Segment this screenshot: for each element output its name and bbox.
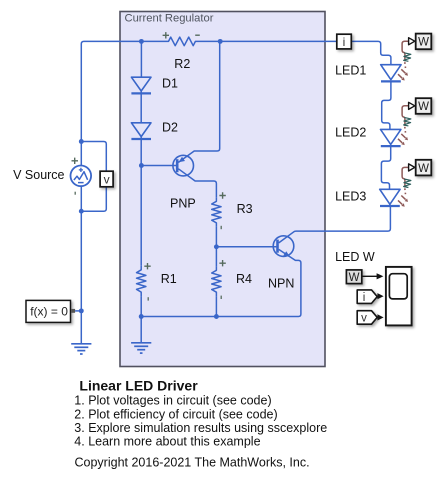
LED2 W display block [416, 98, 432, 114]
NPN emitter wire (down to bottom rail) [141, 249, 301, 316]
LED2 coil (teal spring) [404, 117, 411, 126]
solver configuration block f(x)=0 [26, 300, 71, 322]
node A [139, 39, 144, 44]
node D (R3/R4/base) [214, 244, 219, 249]
diode D1 cathode bar [131, 92, 151, 94]
wire: node G to left ground [80, 311, 82, 344]
svg-text:W: W [418, 101, 429, 113]
node B (PNP emitter junction) [218, 39, 223, 44]
svg-text:NPN: NPN [268, 277, 294, 291]
svg-text:Current Regulator: Current Regulator [125, 13, 214, 25]
svg-text:W: W [418, 37, 429, 49]
wire: node E to V source [80, 142, 82, 166]
svg-text:R3: R3 [237, 202, 253, 216]
node C (base junction) [139, 163, 144, 168]
R1 polarity + mark [144, 263, 150, 269]
wire: LED3 cathode stub [389, 204, 391, 207]
wire: solver port to node G [75, 310, 81, 312]
svg-text:1. Plot voltages in circuit (s: 1. Plot voltages in circuit (see code) [74, 394, 271, 408]
svg-text:Linear LED Driver: Linear LED Driver [79, 377, 198, 393]
wire: V source to node F [80, 186, 82, 211]
LED1 power signal wire (maroon) [402, 41, 408, 61]
wire: i sensor to LED1 entry [352, 41, 391, 64]
LED3 coil (teal spring) [404, 179, 411, 188]
R1 polarity - mark [147, 297, 149, 300]
LED3 power signal wire (maroon) [402, 167, 408, 187]
scope block LED W [386, 267, 412, 326]
R2 polarity + mark [163, 32, 169, 38]
W goto box [346, 270, 361, 284]
node G (solver) [79, 308, 84, 313]
wire: R2 to node B and out to i sensor [196, 40, 336, 42]
wire: node E right branch to voltage sensor [81, 142, 106, 172]
node E (source top) [79, 139, 84, 144]
PNP emitter arrow [179, 157, 185, 163]
node F (source bottom) [79, 209, 84, 214]
svg-text:LED1: LED1 [335, 64, 366, 78]
svg-text:v: v [361, 313, 367, 325]
LED2 cathode bar [381, 145, 401, 147]
LED3 W input arrowhead (open triangle) [409, 164, 415, 171]
NPN collector wire (to LED3 cathode) [279, 207, 391, 243]
LED2 triangle [381, 129, 401, 144]
svg-text:4. Learn more about this examp: 4. Learn more about this example [74, 435, 260, 449]
voltage sensor v block [100, 171, 113, 187]
LED1 light arrow 2 [398, 74, 405, 80]
V source internal + [79, 168, 83, 172]
wire: D2 to node C and down to R1 [140, 137, 142, 266]
current sensor i block [337, 34, 352, 49]
LED3 cathode bar [380, 205, 400, 207]
LED1 light arrow 1 [401, 69, 408, 75]
LED2 light arrow 2 [398, 139, 405, 145]
svg-text:2. Plot efficiency of circuit: 2. Plot efficiency of circuit (see code) [74, 407, 277, 421]
svg-text:PNP: PNP [170, 196, 196, 210]
wire: LED1 to LED2 [382, 81, 391, 129]
wire: R1 to ground node [140, 296, 142, 316]
LED2 dashed signal segment [404, 127, 407, 133]
svg-text:3. Explore simulation results: 3. Explore simulation results using ssce… [74, 421, 327, 435]
svg-text:D1: D1 [162, 77, 178, 91]
wire: D1 to D2 [140, 91, 142, 123]
LED3 W display block [416, 160, 432, 176]
solver block port [71, 309, 75, 313]
wire: node A to R2 [141, 40, 166, 42]
resistor R1 [137, 266, 146, 296]
svg-text:v: v [104, 173, 110, 187]
node R1-ground [139, 314, 144, 319]
LED1 W display block [416, 34, 432, 50]
V Source (AC source circle) [71, 166, 92, 187]
R3 polarity - mark [220, 226, 222, 229]
LED1 W input arrowhead (open triangle) [409, 38, 415, 45]
svg-text:W: W [349, 272, 360, 284]
ground (left) [71, 344, 91, 354]
transistor Q1 PNP circle [173, 155, 194, 176]
resistor R4 [212, 266, 221, 296]
LED2 W input arrowhead (open triangle) [409, 102, 415, 109]
wire: node D down to R4 [215, 247, 217, 266]
wire: R4 to bottom rail [215, 296, 217, 316]
svg-text:Copyright 2016-2021 The MathWo: Copyright 2016-2021 The MathWorks, Inc. [75, 456, 310, 470]
svg-text:LED3: LED3 [335, 190, 366, 204]
LED3 triangle [380, 189, 400, 204]
svg-text:f(x) = 0: f(x) = 0 [30, 304, 68, 318]
NPN emitter arrow [283, 251, 290, 257]
V source internal - [78, 182, 84, 184]
wire: R3 to node D [215, 227, 217, 247]
wire: node C to PNP base [141, 165, 176, 167]
svg-text:i: i [363, 292, 366, 304]
wire: bottom rail node to subsystem ground [140, 317, 142, 343]
svg-text:W: W [418, 163, 429, 175]
arrowhead v to scope [377, 314, 383, 320]
PNP collector wire (down to R3) [178, 169, 216, 198]
svg-text:i: i [343, 35, 346, 49]
R4 polarity + mark [219, 260, 225, 266]
wire: V source top to node A (top left corner) [81, 41, 141, 141]
svg-text:LED W: LED W [335, 250, 375, 264]
Current Regulator subsystem area [120, 12, 325, 367]
NPN base bar [276, 240, 279, 253]
arrowhead i to scope [377, 293, 383, 299]
svg-text:R4: R4 [236, 272, 252, 286]
wire: voltage sensor to node F [81, 187, 106, 211]
wire: node D to NPN base [216, 246, 276, 248]
wire: node F down to solver node G [80, 211, 82, 311]
LED1 cathode bar [381, 80, 401, 82]
svg-text:R1: R1 [161, 272, 177, 286]
R4 polarity - mark [220, 296, 222, 299]
PNP emitter wire (to top rail) [178, 41, 219, 162]
from tag i [357, 290, 377, 304]
LED1 triangle [381, 65, 401, 80]
transistor Q2 NPN circle [273, 236, 294, 257]
LED3 light arrow 2 [398, 200, 405, 206]
resistor R3 [212, 197, 221, 227]
svg-text:V Source: V Source [13, 168, 64, 182]
from tag v [357, 311, 377, 325]
R2 polarity - mark [195, 34, 200, 36]
diode D1 triangle [131, 77, 151, 91]
ground (subsystem) [131, 343, 151, 353]
node R4-bottom rail [214, 314, 219, 319]
LED1 coil (teal spring) [404, 53, 411, 62]
PNP base bar [176, 159, 179, 172]
LED2 power signal wire (maroon) [402, 106, 408, 126]
diode D2 cathode bar [131, 138, 151, 140]
svg-text:LED2: LED2 [335, 126, 366, 140]
V source polarity - mark [74, 192, 76, 195]
LED1 dashed signal segment [404, 62, 407, 68]
svg-text:R2: R2 [174, 57, 190, 71]
signal line W to scope [362, 275, 377, 277]
R3 polarity + mark [219, 192, 225, 198]
LED3 dashed signal segment [404, 188, 407, 194]
LED3 light arrow 1 [401, 196, 408, 202]
resistor R2 (horizontal) [166, 37, 196, 46]
svg-text:D2: D2 [162, 120, 178, 134]
V source waveform [74, 172, 88, 180]
LED2 light arrow 1 [401, 134, 408, 140]
arrowhead W to scope [377, 273, 384, 279]
V source polarity + mark [72, 158, 79, 164]
wire: node A down to D1 [140, 41, 142, 77]
wire: LED2 to LED3 [381, 146, 390, 189]
diode D2 triangle [131, 123, 151, 137]
